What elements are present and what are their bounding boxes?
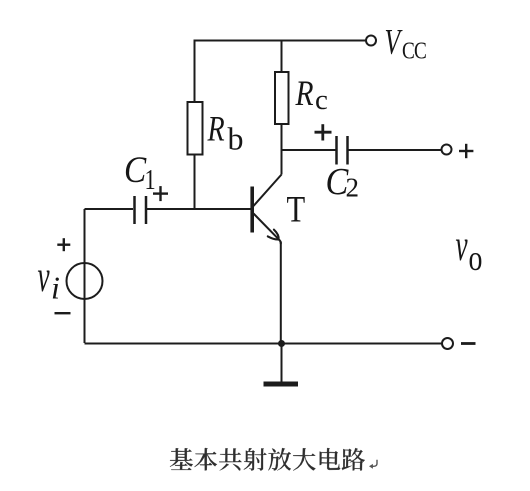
svg-text:R: R xyxy=(295,74,314,113)
svg-text:i: i xyxy=(51,270,60,306)
svg-text:C: C xyxy=(124,149,147,190)
svg-text:R: R xyxy=(207,108,225,148)
svg-text:2: 2 xyxy=(346,173,360,203)
svg-text:1: 1 xyxy=(145,165,156,196)
svg-text:v: v xyxy=(38,251,51,300)
svg-text:v: v xyxy=(456,220,469,269)
svg-text:o: o xyxy=(469,238,483,278)
svg-text:T: T xyxy=(287,190,306,230)
svg-text:V: V xyxy=(385,21,404,61)
svg-text:b: b xyxy=(228,121,244,157)
svg-text:CC: CC xyxy=(402,38,426,65)
svg-text:c: c xyxy=(315,84,328,116)
